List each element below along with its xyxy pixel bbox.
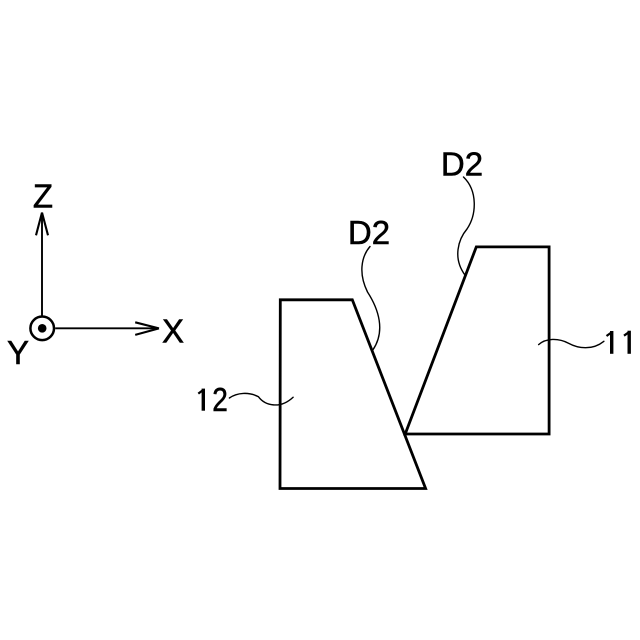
svg-text:Y: Y [7,334,29,371]
svg-text:X: X [162,313,184,350]
svg-text:D2: D2 [441,146,483,183]
svg-text:2: 2 [212,382,228,419]
svg-text:D2: D2 [348,214,390,251]
svg-text:Z: Z [33,178,53,215]
